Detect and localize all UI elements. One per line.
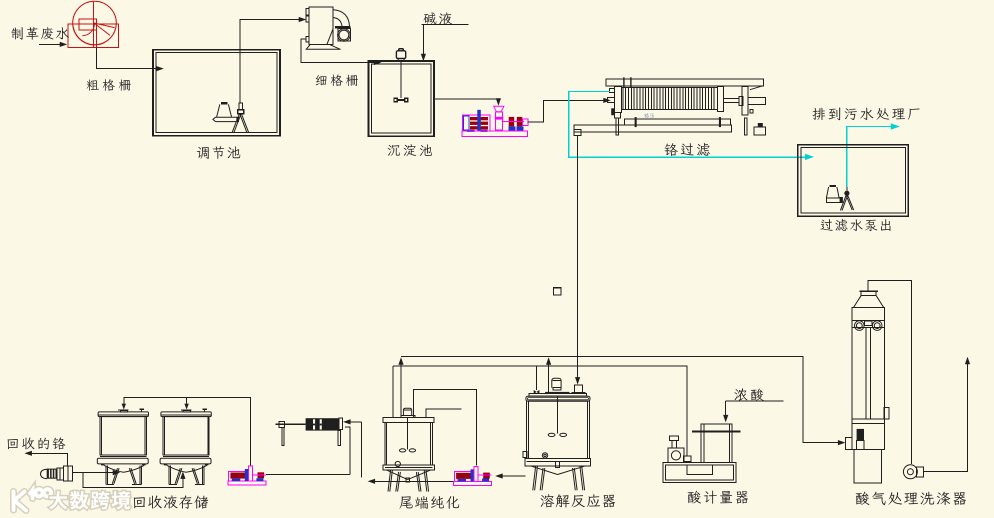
wire: storage tanks top header <box>124 398 251 466</box>
filter press 铬过滤 <box>606 79 764 86</box>
label: 酸计量器 <box>688 491 748 504</box>
label: 调节池 <box>197 146 240 159</box>
wire: regulating tank to fine screen <box>240 19 302 103</box>
submersible pump in regulating tank <box>221 102 227 104</box>
vessel: 溶解反应器 (dissolution reactor) <box>545 392 569 394</box>
wire: purifier risers <box>392 366 394 418</box>
mixer in sedimentation tank <box>396 51 405 59</box>
wire: alkali feed <box>422 25 469 58</box>
label: 酸气处理洗涤器 <box>856 492 966 505</box>
label: 回收的铬 <box>8 437 66 449</box>
tank: 调节池 (regulating tank) walls <box>153 50 280 136</box>
submersible pump in pumped-out tank <box>830 185 836 187</box>
wire: scrubber top gas line to blower <box>868 281 912 464</box>
wire: sedimentation tank to pump P1 <box>434 99 498 102</box>
wire: filter lower port line <box>345 427 350 474</box>
wire: reactor lid riser <box>548 361 550 392</box>
wire: blower exhaust to atmosphere <box>923 361 967 472</box>
wire: concentrated acid feed <box>726 401 784 419</box>
wire: fine screen to sedimentation tank <box>301 39 377 62</box>
wire: line2 purifier->acid meter <box>393 366 687 456</box>
label: 排到污水处理厂 <box>813 108 920 121</box>
vessel: 尾端纯化 (tail-end purifier) <box>383 418 434 423</box>
label: 过滤水泵出 <box>821 219 891 231</box>
wire: raw wastewater inflow arrow <box>39 43 64 45</box>
label: 尾端纯化 <box>399 496 459 509</box>
wire: pump P3 discharge to filter riser <box>372 480 454 482</box>
wire: reactor left nozzle riser <box>536 366 538 390</box>
wire (cyan): filter press filtrate to pumped-out tank <box>569 92 809 158</box>
label: 沉淀池 <box>388 144 432 156</box>
blower symbol (coarse screen fan), red <box>73 1 117 45</box>
storage tank T1 (回收液存储 #1) <box>122 404 126 410</box>
pump P1 (centrifugal pump, magenta/red/blue) <box>463 115 491 131</box>
wire: press rail down to reactor nozzle <box>577 136 579 381</box>
label: 回收液存储 <box>134 495 209 508</box>
wire: pump P2 discharge <box>266 474 350 476</box>
fine screen 细格栅 device <box>309 7 333 45</box>
blower at scrubber outlet <box>903 465 917 479</box>
wire: purifier to pump P3 drop <box>413 389 476 465</box>
wire: long line1 purifier->scrubber <box>401 356 841 442</box>
wire: purifier vent stub <box>426 409 461 418</box>
pump P3 (magenta) <box>454 482 492 486</box>
screw discharger (recovered chrome) <box>41 469 48 478</box>
tank: 沉淀池 walls <box>369 61 435 136</box>
node: small square junction <box>553 288 561 295</box>
label: 浓酸 <box>735 388 764 401</box>
wire: reactor to pump P3 suction <box>499 475 525 477</box>
storage tank T2 (回收液存储 #2) <box>184 404 188 410</box>
wire: recovered chrome outlet arrow <box>28 453 67 466</box>
wire: fan to regulating tank <box>96 48 159 69</box>
watermark text 大数跨境 <box>49 491 130 509</box>
filter cartridge (尾端纯化 inline filter) <box>275 423 305 425</box>
label: 制革废水 <box>11 27 69 40</box>
wire: filter top port line <box>347 421 362 423</box>
label: 溶解反应器 <box>541 494 616 507</box>
wire: pump P1 to filter press <box>528 100 607 122</box>
tiny label on press <box>644 113 654 118</box>
label: 细格栅 <box>316 74 358 86</box>
acid metering unit 酸计量器 <box>663 463 736 483</box>
watermark logo K100 <box>14 489 52 510</box>
label: 铬过滤 <box>665 143 710 156</box>
wire (cyan): tank to sewage plant <box>847 127 894 187</box>
scrubber column 酸气处理洗涤器 <box>859 290 878 292</box>
label: 粗格栅 <box>87 79 131 91</box>
tank: 过滤水泵出 walls <box>798 145 908 217</box>
label: 碱液 <box>424 12 453 25</box>
pump P2 (magenta) <box>228 481 266 485</box>
wire: discharger to storage tanks <box>72 472 116 474</box>
